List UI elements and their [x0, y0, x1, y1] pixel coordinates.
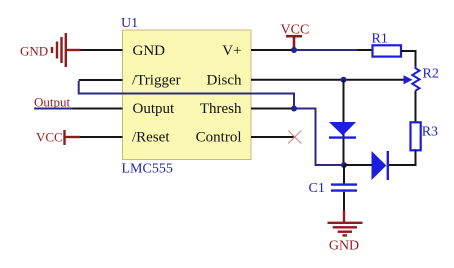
op-amp U1 body (LMC555 timer box) — [123, 30, 252, 160]
wire: Disch junction down through diode D1 to bottom junction (black) — [343, 80, 345, 165]
VCC power bar symbol (left, sideways) — [63, 130, 65, 145]
wire: Output pin stub (black) — [73, 108, 123, 110]
wire: VCC junction to R1 (blue) — [294, 49, 358, 51]
svg-text:GND: GND — [329, 239, 359, 254]
wire: ground symbol to GND pin (red part) — [66, 49, 81, 51]
svg-text:R2: R2 — [423, 67, 439, 82]
svg-text:R1: R1 — [372, 32, 388, 47]
wire: C1 bottom stub (black) — [343, 192, 345, 211]
capacitor C1 plates — [331, 183, 357, 185]
no-connect X at Control pin — [288, 131, 301, 144]
svg-text:Control: Control — [196, 130, 242, 146]
wire: R3 bottom to corner and left to diode D2 (black) — [388, 150, 416, 165]
svg-text:V+: V+ — [222, 43, 241, 59]
wire: stem to ground (red) — [343, 211, 345, 223]
wire: Control pin stub (black) — [251, 136, 295, 138]
wire: Output net stub (blue, under label) — [34, 108, 73, 110]
wire: thresh node right and down to bottom junction (blue) — [294, 109, 344, 166]
svg-text:VCC: VCC — [36, 130, 63, 145]
svg-text:/Trigger: /Trigger — [132, 73, 181, 89]
wire: GND pin stub (black) — [81, 49, 123, 51]
wire: trigger loop (blue) down, across over chip to thresh node — [79, 81, 294, 109]
bottom junction node — [341, 162, 347, 168]
wire: V+ pin to VCC junction (black) — [251, 49, 294, 51]
wire: /Reset pin stub (black) — [80, 136, 123, 138]
VCC power bar symbol (top) — [286, 35, 302, 38]
svg-text:LMC555: LMC555 — [122, 162, 173, 177]
diode D2 (horizontal, pointing right) — [372, 151, 387, 180]
diode D1 (vertical, pointing down) — [329, 122, 356, 136]
wire: Thresh pin to junction (black) — [251, 108, 294, 110]
wire: R2 bottom to R3 top (black) — [415, 91, 417, 123]
junction at VCC / V+ — [291, 47, 297, 53]
svg-text:Output: Output — [133, 101, 176, 117]
svg-text:U1: U1 — [121, 16, 138, 31]
wire: bottom junction down to C1 (black) — [343, 165, 345, 184]
wire: R1 left pin stub (black) — [358, 49, 373, 51]
junction on Disch line at diode branch — [341, 77, 347, 83]
wire: bottom junction to diode D2 (black) — [344, 164, 372, 166]
svg-text:/Reset: /Reset — [132, 130, 170, 146]
wire: Disch pin to R2 arrow (black) — [251, 79, 404, 81]
wire: R1 right to corner and down to R2 (black) — [401, 51, 416, 66]
resistor R2 zigzag body (variable) — [412, 66, 419, 91]
svg-text:R3: R3 — [422, 125, 438, 140]
wire: VCC bar stem down to V+ line — [293, 36, 296, 49]
R2 wiper arrow — [404, 75, 413, 84]
junction at trigger/thresh node — [291, 106, 297, 112]
ground symbol (left, at GND pin) — [52, 33, 66, 67]
svg-text:GND: GND — [133, 43, 166, 59]
wire: VCC bar to /Reset pin (red part) — [65, 136, 81, 138]
svg-text:Thresh: Thresh — [200, 101, 242, 117]
resistor R3 body — [411, 122, 421, 150]
svg-text:C1: C1 — [309, 181, 325, 196]
svg-text:GND: GND — [20, 44, 48, 59]
ground symbol (bottom) — [328, 223, 363, 236]
svg-text:Output: Output — [34, 95, 71, 110]
resistor R1 body — [373, 45, 402, 56]
svg-text:Disch: Disch — [207, 73, 242, 89]
wire: /Trigger pin stub (black) — [79, 79, 123, 81]
